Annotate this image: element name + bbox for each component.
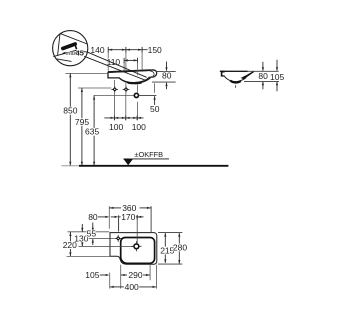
svg-text:150: 150: [148, 45, 162, 55]
dimension line 55: [92, 223, 94, 246]
fixing hole diamond right: [123, 86, 130, 93]
svg-text:140: 140: [90, 45, 104, 55]
dimension line 140-150: [108, 47, 147, 53]
extension line beak to drain level: [154, 83, 156, 93]
extension line 110 right: [136, 62, 138, 75]
svg-text:105: 105: [270, 72, 284, 82]
basin front top edge thick: [108, 70, 151, 72]
dimension line 170: [119, 215, 144, 220]
extension line front bottom right: [152, 81, 176, 83]
extension line 220 ref: [67, 255, 111, 257]
detail interior basin edge line: [53, 50, 87, 56]
extension line hole right down: [125, 83, 127, 86]
arrowheads 360: [110, 207, 151, 209]
arrowheads 105 side: [276, 67, 278, 85]
svg-text:±OKFFB: ±OKFFB: [134, 150, 163, 159]
dimension line 80 plan: [98, 216, 116, 218]
svg-text:105: 105: [85, 270, 99, 280]
dimension line 400: [110, 286, 156, 288]
extension line 290 right: [149, 264, 151, 280]
svg-text:45: 45: [76, 48, 84, 57]
svg-text:80: 80: [88, 212, 98, 222]
arrowheads 635: [93, 96, 95, 166]
detail leader arrowhead: [62, 52, 66, 54]
svg-text:795: 795: [75, 117, 89, 127]
svg-text:290: 290: [128, 270, 142, 280]
arrowheads 795: [81, 88, 83, 166]
dimension line 360: [109, 207, 151, 209]
dimension line 110: [124, 58, 137, 63]
arrowheads 80 side: [262, 67, 264, 85]
svg-text:100: 100: [132, 122, 146, 132]
dimension line 130: [81, 224, 83, 246]
extension line 130 ref: [79, 246, 134, 248]
dimension line 635: [93, 95, 95, 165]
detail tap spout foot: [75, 45, 76, 49]
extension line 290 left: [120, 265, 122, 289]
arrowheads 215: [164, 233, 166, 264]
extension line 360 left: [108, 206, 110, 228]
side view bowl curve: [225, 76, 247, 81]
arrowheads 55: [92, 228, 94, 243]
dimension line 795: [81, 88, 83, 166]
extension line 55 ref: [89, 238, 115, 240]
extension line 400 left: [109, 273, 111, 289]
extension line 80-170 mid: [118, 215, 120, 231]
leader line upper to basin: [88, 52, 147, 77]
basin front bottom thick arc: [128, 82, 142, 85]
extension line 635 top: [94, 94, 134, 96]
floor line thin: [62, 165, 80, 167]
side view top edge: [220, 70, 248, 72]
dimension line 105 plan: [100, 274, 106, 276]
arrowheads 220: [69, 232, 71, 256]
extension line 140 left: [107, 52, 109, 71]
basin front inner bowl line: [120, 77, 150, 83]
arrowheads 80 plan: [105, 216, 118, 218]
extension line 140/150 mid: [125, 52, 127, 71]
dimension line 100 100: [104, 116, 143, 121]
detail interior left edge line: [58, 33, 60, 55]
arrowhead 105 plan: [106, 274, 110, 276]
extension line 110 left: [123, 62, 125, 71]
arrowheads 290: [121, 274, 150, 276]
arrowheads 850: [69, 73, 71, 165]
arrowheads 130: [81, 228, 83, 247]
extension line 360 right: [150, 206, 152, 232]
extension line plan bottom right: [158, 263, 182, 265]
side view top extension line: [248, 70, 279, 72]
extension line 150 right: [141, 52, 143, 70]
svg-text:635: 635: [85, 127, 99, 137]
dimension line 850: [69, 73, 71, 165]
extension line 170 right: [136, 215, 138, 243]
extension line drain to dim: [137, 102, 139, 120]
arrowheads 140-150: [108, 49, 142, 51]
arrowhead 50: [154, 96, 156, 100]
dimension line 80 side: [262, 62, 264, 90]
side view centerline: [235, 85, 237, 88]
svg-text:280: 280: [173, 243, 187, 253]
plan outer outline: [110, 233, 157, 265]
svg-text:80: 80: [258, 71, 268, 81]
side view drain stub thick arc: [230, 81, 241, 83]
arrowheads 80 front: [165, 67, 167, 86]
basin front view outline: [108, 70, 157, 83]
arrowheads 400: [110, 286, 157, 288]
dimension line 220: [69, 232, 71, 256]
arrowhead 170: [137, 216, 141, 218]
detail interior bottom chord: [57, 59, 72, 62]
leader line lower to basin: [84, 56, 146, 80]
detail interior upper chord: [60, 33, 87, 44]
plan bowl outline: [121, 238, 155, 264]
fixing hole diamond left: [111, 86, 118, 93]
extension line hole right to dim: [125, 93, 127, 120]
extension line drain top: [136, 85, 138, 93]
floor line thick: [79, 165, 228, 167]
drain circle: [134, 93, 138, 97]
level marker underline: [123, 158, 169, 160]
detail circle: [53, 31, 88, 66]
dimension line 50: [154, 96, 156, 105]
svg-text:400: 400: [125, 282, 139, 292]
side view wall block: [221, 71, 225, 77]
svg-text:100: 100: [109, 122, 123, 132]
svg-text:850: 850: [63, 105, 77, 115]
basin front inner lip line: [150, 71, 154, 76]
extension line hole left down: [114, 80, 116, 86]
side view bottom extension line: [244, 80, 279, 82]
extension line 400 right: [155, 265, 157, 289]
extension line hole left to dim: [114, 93, 116, 120]
arrowheads 110: [124, 59, 137, 61]
arrowheads 280: [178, 233, 180, 264]
plan fixing hole diamond: [115, 235, 122, 242]
svg-text:80: 80: [162, 70, 172, 80]
dimension line 80 front: [166, 62, 168, 90]
extension line front top right: [157, 70, 176, 72]
plan tap hole: [131, 241, 141, 251]
extension line drain right: [139, 94, 156, 96]
extension line 795 top: [78, 87, 112, 89]
svg-text:170: 170: [121, 212, 135, 222]
extension line plan top right: [158, 232, 182, 234]
dimension line 215: [164, 233, 166, 263]
dimension line 280: [178, 233, 180, 263]
svg-text:50: 50: [150, 104, 160, 114]
dimension line 105 side: [276, 60, 278, 92]
dimension line 290: [121, 274, 150, 276]
arrowheads 100 100: [111, 117, 141, 119]
svg-text:55: 55: [87, 229, 97, 239]
extension line plan top left: [68, 231, 110, 233]
extension line 850 top: [65, 72, 108, 74]
level marker triangle: [123, 159, 133, 165]
detail tap silhouette: [63, 44, 75, 49]
side view rim lip wedge: [241, 71, 254, 80]
